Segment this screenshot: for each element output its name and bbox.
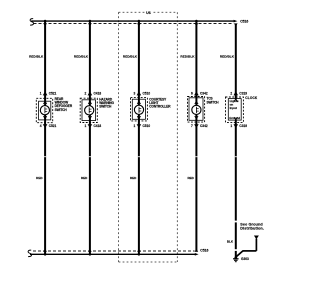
svg-text:CLOCK: CLOCK [245,96,258,100]
svg-text:C342: C342 [200,124,208,128]
svg-text:C510: C510 [143,124,151,128]
svg-text:C510: C510 [143,92,151,96]
svg-text:1: 1 [134,124,136,128]
svg-text:RED/BLK: RED/BLK [180,55,195,59]
svg-text:7: 7 [191,124,193,128]
svg-text:1: 1 [40,92,42,96]
svg-text:C521: C521 [49,124,57,128]
svg-text:RED: RED [187,176,194,180]
svg-text:Ground: Ground [229,116,240,120]
svg-text:SWITCH: SWITCH [55,108,68,112]
svg-text:RED: RED [130,176,137,180]
svg-text:CONTROLLER: CONTROLLER [149,105,171,109]
svg-text:2: 2 [230,92,232,96]
svg-text:1: 1 [230,124,232,128]
svg-text:C319: C319 [239,124,247,128]
svg-text:BLK: BLK [227,240,234,244]
svg-text:RED: RED [81,176,88,180]
svg-text:RED: RED [36,176,43,180]
svg-text:C516: C516 [200,248,208,252]
svg-text:C418: C418 [94,92,102,96]
svg-text:C516: C516 [240,20,248,24]
svg-text:RED/BLK: RED/BLK [29,55,44,59]
svg-text:3: 3 [134,92,136,96]
svg-text:G303: G303 [241,257,249,261]
svg-text:C342: C342 [200,92,208,96]
svg-text:input: input [230,106,237,110]
svg-text:RED/BLK: RED/BLK [220,55,235,59]
svg-text:C418: C418 [94,124,102,128]
svg-text:4: 4 [40,124,42,128]
svg-text:U6: U6 [146,11,151,15]
svg-text:1: 1 [85,124,87,128]
svg-text:C521: C521 [49,92,57,96]
svg-text:SWITCH: SWITCH [207,100,220,104]
svg-text:SWITCH: SWITCH [99,105,112,109]
svg-text:6: 6 [191,92,193,96]
svg-text:RED/BLK: RED/BLK [74,55,89,59]
svg-text:Distribution.: Distribution. [240,227,264,231]
svg-text:RED/BLK: RED/BLK [123,55,138,59]
svg-text:2: 2 [85,92,87,96]
